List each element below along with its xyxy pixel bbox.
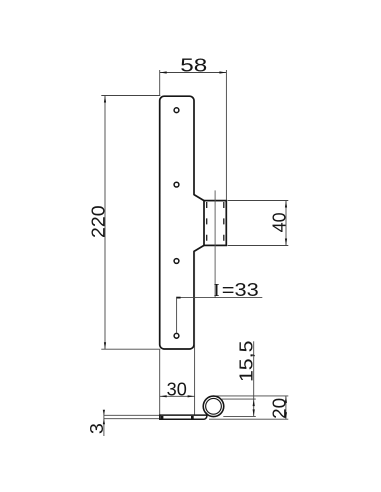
dim 40 extension line bottom bbox=[228, 245, 289, 247]
label I=33 leader vertical to hole 4 bbox=[176, 298, 178, 334]
dim 58 arrow left bbox=[160, 71, 167, 73]
strip bottom edge with curl into knuckle bbox=[160, 413, 207, 420]
knuckle outer circle (side view) bbox=[203, 396, 224, 417]
dim 3 dimension line bbox=[103, 411, 105, 436]
dim 20 dimension line bbox=[285, 396, 287, 419]
strip screw hole section left bbox=[161, 416, 164, 419]
dim 58 dimension line bbox=[160, 72, 227, 74]
strip screw hole section right bbox=[191, 416, 194, 419]
dim 220 extension line bottom bbox=[101, 348, 160, 350]
dim 30 extension line right (projection) bbox=[194, 252, 196, 415]
svg-text:58: 58 bbox=[180, 56, 207, 76]
dim 15,5 extension line bottom (from outer circle bottom) bbox=[223, 415, 256, 417]
hidden line left (pin hole) bbox=[206, 202, 208, 245]
knuckle inner circle (side view) bbox=[206, 398, 222, 414]
svg-text:40: 40 bbox=[270, 212, 290, 232]
svg-text:220: 220 bbox=[89, 205, 109, 238]
barrel centerline bbox=[214, 190, 216, 297]
strip top edge (side view) bbox=[160, 414, 207, 416]
dim 40 arrow top bbox=[285, 201, 287, 208]
dim 40 arrow bottom bbox=[285, 239, 287, 246]
dim 15,5 extension line top (from inner circle) bbox=[222, 398, 256, 400]
strip left end cap bbox=[159, 414, 161, 420]
dim 220 arrow top bbox=[104, 96, 106, 103]
svg-text:=33: =33 bbox=[222, 280, 259, 300]
dim 15,5 arrow bottom bbox=[253, 409, 255, 416]
hidden line right (pin hole) bbox=[223, 202, 225, 245]
hole 4 bbox=[174, 333, 179, 338]
dim 3 extension line top bbox=[104, 414, 159, 416]
dim 30 arrow left bbox=[160, 395, 167, 397]
dim 220 arrow bottom bbox=[104, 342, 106, 349]
dim 3 arrow bottom (outside pointing up) bbox=[103, 419, 105, 425]
svg-text:3: 3 bbox=[87, 423, 107, 434]
barrel (knuckle, front view) bbox=[204, 201, 226, 246]
dim 40 dimension line bbox=[285, 201, 287, 246]
dim 30 arrow right bbox=[188, 395, 195, 397]
plate outline (front view) bbox=[160, 96, 204, 349]
dim 220 dimension line bbox=[104, 96, 106, 350]
label I=33 leader corner tick bbox=[176, 297, 180, 299]
dim 58 extension line left bbox=[159, 70, 161, 96]
dim 58 arrow right bbox=[219, 71, 226, 73]
svg-text:I: I bbox=[214, 280, 220, 300]
dim 3 extension line bottom bbox=[104, 418, 159, 420]
dim 15,5 dimension line bbox=[253, 341, 255, 416]
svg-text:15,5: 15,5 bbox=[236, 341, 256, 383]
dim 30 extension line left (projection) bbox=[159, 350, 161, 415]
dim 30 dimension line bbox=[160, 395, 195, 397]
dim 220 extension line top bbox=[101, 95, 160, 97]
dim 15,5 arrow top bbox=[253, 399, 255, 406]
hole 2 bbox=[174, 182, 179, 187]
dim 20 arrow top bbox=[285, 396, 287, 403]
dim 20 extension line bottom (from strip bottom) bbox=[209, 418, 288, 420]
dim 20 arrow bottom bbox=[285, 412, 287, 419]
svg-text:30: 30 bbox=[167, 379, 187, 399]
hole 3 bbox=[174, 259, 179, 264]
hole 1 bbox=[174, 108, 179, 113]
label I=33 leader horizontal bbox=[177, 297, 263, 299]
svg-text:20: 20 bbox=[270, 398, 290, 419]
dim 58 extension line right bbox=[225, 70, 227, 200]
dim 20 extension line top (from circle top) bbox=[215, 395, 289, 397]
dim 3 arrow top (outside pointing down) bbox=[103, 410, 105, 416]
dim 40 extension line top bbox=[228, 200, 289, 202]
